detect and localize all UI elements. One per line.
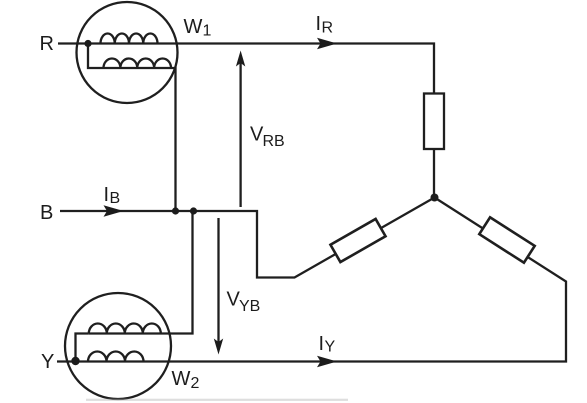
svg-text:B: B [110, 190, 121, 207]
svg-text:RB: RB [263, 133, 285, 150]
svg-text:W: W [172, 368, 191, 390]
svg-text:Y: Y [325, 339, 336, 356]
svg-text:B: B [40, 202, 53, 224]
svg-text:Y: Y [41, 351, 54, 373]
svg-text:I: I [104, 184, 110, 206]
svg-text:I: I [319, 333, 325, 355]
svg-text:2: 2 [191, 375, 200, 392]
svg-text:R: R [322, 20, 334, 37]
svg-text:YB: YB [239, 298, 260, 315]
svg-text:1: 1 [203, 23, 212, 40]
svg-text:R: R [40, 33, 54, 55]
svg-text:W: W [184, 16, 203, 38]
svg-text:I: I [316, 13, 322, 35]
